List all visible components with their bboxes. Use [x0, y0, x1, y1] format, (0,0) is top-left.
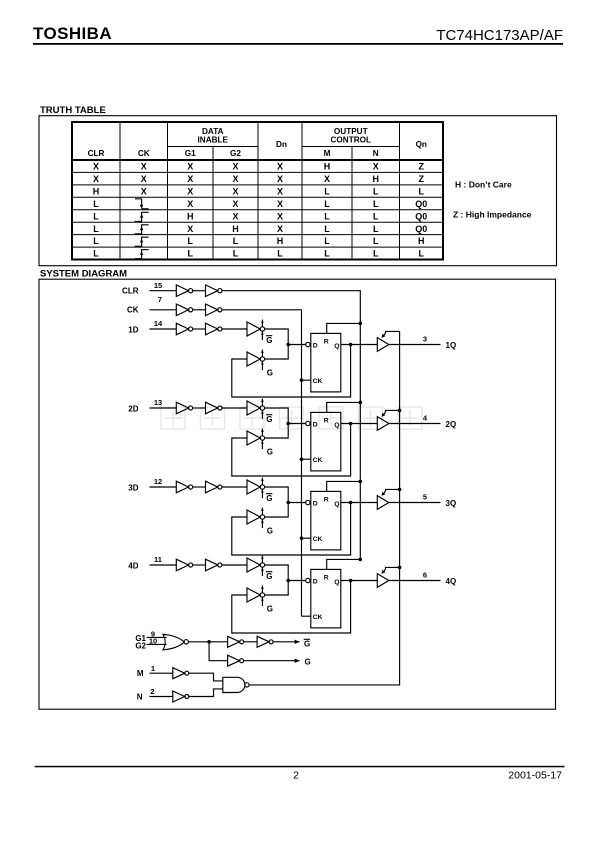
node D3: [286, 501, 290, 505]
svg-text:6: 6: [423, 571, 427, 580]
svg-text:CK: CK: [138, 149, 150, 158]
svg-text:L: L: [419, 249, 425, 259]
wire FF1 R to CLR rail: [327, 323, 361, 333]
wire 4D interstage: [193, 564, 206, 566]
svg-text:2D: 2D: [128, 405, 138, 414]
inverter 4D 1: [176, 559, 192, 571]
svg-text:L: L: [93, 249, 99, 259]
svg-text:N: N: [373, 149, 379, 158]
svg-text:X: X: [141, 187, 147, 197]
svg-text:X: X: [187, 162, 193, 172]
svg-text:Q: Q: [334, 501, 339, 508]
svg-text:CLR: CLR: [88, 149, 105, 158]
svg-text:CK: CK: [313, 614, 323, 621]
node Q4: [349, 579, 353, 583]
flip-flop FF2: [311, 412, 341, 471]
wire 3D gate to D node: [265, 487, 289, 501]
wire 1Q output: [389, 344, 441, 346]
node D2: [286, 422, 290, 426]
svg-text:L: L: [324, 224, 330, 234]
wire CLR rail: [222, 291, 360, 560]
svg-text:D: D: [313, 422, 318, 429]
svg-text:R: R: [324, 418, 329, 425]
inverter 3D 1: [176, 481, 192, 493]
svg-text:H: H: [277, 236, 284, 246]
wire Gbar output arrow: [273, 640, 300, 644]
svg-text:L: L: [373, 224, 379, 234]
system diagram box: [39, 279, 556, 709]
node CLR tap 4: [359, 558, 363, 562]
wire 1D input: [150, 328, 177, 330]
wire 4D gate to D node: [265, 565, 289, 579]
svg-text:L: L: [188, 249, 194, 259]
svg-text:L: L: [93, 236, 99, 246]
svg-text:G: G: [266, 572, 272, 581]
svg-text:Q: Q: [334, 422, 339, 429]
wire G output arrow: [244, 659, 300, 663]
wire 1D to gate: [222, 328, 247, 330]
svg-text:2Q: 2Q: [446, 420, 457, 429]
svg-text:Dn: Dn: [276, 140, 287, 149]
inverter CK 1: [176, 304, 192, 316]
svg-text:X: X: [373, 162, 379, 172]
wire 4D input: [150, 564, 177, 566]
svg-text:D: D: [313, 343, 318, 350]
svg-text:M: M: [137, 669, 144, 678]
svg-text:G1: G1: [185, 149, 196, 158]
svg-text:H: H: [187, 211, 194, 221]
transmission gate 3D Gbar: [247, 478, 273, 503]
svg-text:13: 13: [154, 398, 162, 407]
svg-text:X: X: [324, 174, 330, 184]
svg-text:TRUTH TABLE: TRUTH TABLE: [40, 105, 106, 116]
wire 1D gate to D node: [265, 329, 289, 343]
wire Q3 feedback loop: [232, 503, 351, 556]
transmission gate 1D Gbar: [247, 320, 273, 345]
svg-text:L: L: [233, 236, 239, 246]
wire CLR input: [150, 290, 177, 292]
truth table column lines: [120, 122, 400, 260]
wire D node to FF1: [288, 344, 305, 346]
node G split: [207, 640, 211, 644]
svg-text:INABLE: INABLE: [198, 136, 229, 145]
wire FF2 R to CLR rail: [327, 402, 361, 412]
svg-text:X: X: [187, 174, 193, 184]
CK falling edge symbol row 4: [135, 199, 149, 209]
svg-text:G: G: [267, 448, 273, 457]
node D4: [286, 579, 290, 583]
svg-text:X: X: [277, 199, 283, 209]
svg-text:G: G: [304, 640, 310, 649]
svg-text:Q0: Q0: [415, 211, 427, 221]
svg-text:M: M: [324, 149, 331, 158]
wire FF3 R to CLR rail: [327, 481, 361, 491]
FF1 D input bubble: [306, 342, 310, 346]
svg-text:L: L: [373, 199, 379, 209]
wire feedback gate 4 to D node: [265, 582, 289, 595]
svg-text:X: X: [187, 187, 193, 197]
node CLR tap 3: [359, 480, 363, 484]
svg-text:4Q: 4Q: [446, 577, 457, 586]
svg-text:L: L: [93, 199, 99, 209]
svg-text:1: 1: [151, 664, 155, 673]
truth table header separator: [72, 159, 443, 161]
wire FF4 Q output: [341, 580, 378, 582]
svg-text:X: X: [141, 162, 147, 172]
svg-text:L: L: [324, 211, 330, 221]
truth table section box: [39, 116, 557, 266]
svg-text:L: L: [373, 211, 379, 221]
svg-text:14: 14: [154, 319, 163, 328]
inverter CLR 2: [206, 285, 222, 297]
inverter CK 2: [206, 304, 222, 316]
wire D node to FF2: [288, 423, 305, 425]
inverter 4D 2: [206, 559, 222, 571]
svg-text:R: R: [324, 497, 329, 504]
svg-text:L: L: [188, 236, 194, 246]
transmission gate Q4 feedback G: [247, 586, 273, 614]
inverter Gbar 1: [228, 636, 244, 647]
wire FF1 CK tap: [302, 379, 311, 381]
FF3 D input bubble: [306, 500, 310, 504]
svg-text:D: D: [313, 501, 318, 508]
transmission gate 2D Gbar: [247, 399, 273, 424]
svg-text:L: L: [324, 236, 330, 246]
svg-text:15: 15: [154, 281, 162, 290]
svg-text:7: 7: [158, 295, 162, 304]
node D1: [286, 343, 290, 347]
transmission gate 4D Gbar: [247, 556, 273, 581]
svg-text:X: X: [277, 211, 283, 221]
svg-text:L: L: [277, 249, 283, 259]
wire Q2 feedback loop: [232, 424, 351, 477]
svg-text:X: X: [232, 199, 238, 209]
inverter 1D 1: [176, 323, 192, 335]
NAND gate M N: [223, 677, 249, 692]
wire G2 input: [147, 643, 167, 645]
watermark: [161, 407, 422, 429]
svg-text:N: N: [137, 693, 143, 702]
wire CK rail: [222, 310, 302, 616]
wire G branch: [209, 642, 228, 661]
node Q1: [349, 343, 353, 347]
svg-text:Q: Q: [334, 343, 339, 350]
wire FF3 Q output: [341, 502, 378, 504]
node OE tap 4: [398, 566, 402, 570]
svg-text:H: H: [418, 236, 425, 246]
wire 2D gate to D node: [265, 408, 289, 422]
svg-text:4D: 4D: [128, 562, 138, 571]
wire Q4 feedback loop: [232, 581, 351, 634]
tri-state output buffer 2Q: [377, 410, 399, 430]
inverter M: [173, 668, 189, 679]
wire 1D interstage: [193, 328, 206, 330]
svg-text:SYSTEM DIAGRAM: SYSTEM DIAGRAM: [40, 269, 127, 280]
svg-text:CK: CK: [313, 536, 323, 543]
wire FF4 CK tap: [302, 615, 311, 617]
truth table sub-header lines: [168, 146, 400, 148]
svg-text:L: L: [324, 249, 330, 259]
CK rising edge symbol row 8: [135, 250, 149, 259]
wire 3Q output: [389, 502, 441, 504]
wire 2D to gate: [222, 407, 247, 409]
svg-text:G: G: [266, 494, 272, 503]
wire feedback gate 2 to D node: [265, 425, 289, 438]
svg-text:CK: CK: [313, 378, 323, 385]
svg-text:L: L: [93, 224, 99, 234]
svg-text:H : Don’t Care: H : Don’t Care: [455, 180, 512, 190]
wire 3D interstage: [193, 486, 206, 488]
wire M to NAND: [189, 673, 223, 681]
node CLR tap 2: [359, 401, 363, 405]
svg-text:H: H: [324, 162, 331, 172]
wire 2D input: [150, 407, 177, 409]
FF4 D input bubble: [306, 578, 310, 582]
transmission gate Q3 feedback G: [247, 508, 273, 536]
svg-text:L: L: [233, 249, 239, 259]
svg-text:3Q: 3Q: [446, 499, 457, 508]
svg-text:G: G: [266, 336, 272, 345]
svg-text:X: X: [141, 174, 147, 184]
wire M input: [150, 672, 173, 674]
wire Gbar interstage: [244, 641, 258, 643]
svg-text:L: L: [324, 199, 330, 209]
svg-text:G: G: [267, 527, 273, 536]
wire feedback gate 1 to D node: [265, 346, 289, 359]
svg-text:1D: 1D: [128, 326, 138, 335]
svg-text:X: X: [277, 174, 283, 184]
wire N to NAND: [189, 689, 223, 697]
svg-text:G: G: [267, 605, 273, 614]
svg-text:Z : High Impedance: Z : High Impedance: [453, 210, 532, 220]
CK rising edge symbol row 5: [135, 212, 149, 221]
CK rising edge symbol row 6: [135, 225, 149, 234]
svg-text:X: X: [187, 199, 193, 209]
wire output enable rail: [249, 331, 400, 685]
svg-text:X: X: [232, 174, 238, 184]
tri-state output buffer 3Q: [377, 489, 399, 509]
svg-text:G: G: [305, 658, 311, 667]
svg-text:CLR: CLR: [122, 287, 139, 296]
tri-state output buffer 4Q: [377, 567, 399, 587]
svg-text:12: 12: [154, 477, 162, 486]
svg-text:X: X: [277, 162, 283, 172]
wire 3D input: [150, 486, 177, 488]
svg-text:11: 11: [154, 555, 162, 564]
truth table frame: [72, 122, 443, 260]
net Gbar label: [304, 639, 311, 648]
transmission gate Q1 feedback G: [247, 350, 273, 378]
svg-text:CK: CK: [313, 457, 323, 464]
wire CLR interstage: [193, 290, 206, 292]
wire FF4 R to CLR rail: [327, 559, 361, 569]
svg-text:X: X: [232, 187, 238, 197]
svg-text:H: H: [93, 187, 100, 197]
svg-text:CONTROL: CONTROL: [331, 136, 371, 145]
svg-text:Q: Q: [334, 579, 339, 586]
CK rising edge symbol row 7: [135, 237, 149, 246]
svg-text:Z: Z: [419, 174, 425, 184]
inverter N: [173, 691, 189, 702]
wire 4D to gate: [222, 564, 247, 566]
svg-text:2: 2: [293, 770, 299, 782]
svg-text:R: R: [324, 575, 329, 582]
inverter 2D 2: [206, 402, 222, 414]
svg-text:2001-05-17: 2001-05-17: [508, 770, 562, 782]
truth table header text: [88, 127, 427, 158]
svg-text:X: X: [277, 224, 283, 234]
svg-text:R: R: [324, 339, 329, 346]
svg-text:X: X: [232, 211, 238, 221]
node OE tap 2: [398, 409, 402, 413]
svg-text:Qn: Qn: [416, 140, 427, 149]
wire FF2 Q output: [341, 423, 378, 425]
wire feedback gate 3 to D node: [265, 504, 289, 517]
svg-text:L: L: [373, 236, 379, 246]
svg-text:D: D: [313, 579, 318, 586]
svg-text:1Q: 1Q: [446, 341, 457, 350]
svg-text:H: H: [232, 224, 239, 234]
inverter CLR 1: [176, 285, 192, 297]
svg-text:5: 5: [423, 493, 427, 502]
flip-flop FF3: [311, 491, 341, 550]
svg-text:Z: Z: [419, 162, 425, 172]
svg-text:4: 4: [423, 414, 428, 423]
wire 3D to gate: [222, 486, 247, 488]
svg-text:3D: 3D: [128, 484, 138, 493]
wire CK interstage: [193, 309, 206, 311]
svg-text:G2: G2: [135, 641, 146, 650]
wire N input: [150, 696, 173, 698]
node CK tap 3: [300, 536, 304, 540]
svg-text:L: L: [324, 187, 330, 197]
wire G1 input: [147, 636, 167, 638]
flip-flop FF4: [311, 569, 341, 628]
svg-text:Q0: Q0: [415, 199, 427, 209]
node CK tap 2: [300, 457, 304, 461]
wire FF2 CK tap: [302, 458, 311, 460]
inverter 1D 2: [206, 323, 222, 335]
wire 2Q output: [389, 423, 441, 425]
node OE tap 3: [398, 488, 402, 492]
svg-text:G: G: [266, 415, 272, 424]
flip-flop FF1: [311, 333, 341, 392]
NOR gate G1 G2: [163, 634, 188, 650]
svg-text:X: X: [187, 224, 193, 234]
svg-text:X: X: [93, 174, 99, 184]
transmission gate Q2 feedback G: [247, 429, 273, 457]
svg-text:L: L: [373, 187, 379, 197]
svg-text:G2: G2: [230, 149, 241, 158]
wire Q1 feedback loop: [232, 345, 351, 398]
tri-state output buffer 1Q: [377, 331, 399, 351]
svg-text:G: G: [267, 369, 273, 378]
footer rule: [35, 766, 565, 768]
FF2 D input bubble: [306, 421, 310, 425]
svg-text:2: 2: [150, 687, 154, 696]
wire FF3 CK tap: [302, 537, 311, 539]
svg-text:3: 3: [423, 335, 427, 344]
svg-text:TC74HC173AP/AF: TC74HC173AP/AF: [436, 27, 563, 44]
wire NOR output: [188, 641, 227, 643]
header rule: [33, 43, 563, 45]
svg-text:TOSHIBA: TOSHIBA: [33, 24, 112, 43]
node Q3: [349, 501, 353, 505]
svg-text:Q0: Q0: [415, 224, 427, 234]
svg-text:CK: CK: [127, 306, 139, 315]
wire CK input: [150, 309, 177, 311]
svg-text:L: L: [373, 249, 379, 259]
wire D node to FF4: [288, 580, 305, 582]
inverter G: [228, 655, 244, 666]
svg-text:X: X: [277, 187, 283, 197]
node CK tap 1: [300, 378, 304, 382]
node Q2: [349, 422, 353, 426]
inverter 3D 2: [206, 481, 222, 493]
truth table row lines: [72, 172, 443, 247]
node CLR tap 1: [359, 322, 363, 326]
svg-text:X: X: [232, 162, 238, 172]
wire FF1 Q output: [341, 344, 378, 346]
inverter 2D 1: [176, 402, 192, 414]
svg-text:H: H: [373, 174, 380, 184]
svg-text:L: L: [419, 187, 425, 197]
svg-text:L: L: [93, 211, 99, 221]
wire D node to FF3: [288, 502, 305, 504]
wire 4Q output: [389, 580, 441, 582]
inverter Gbar 2: [257, 636, 273, 647]
wire 2D interstage: [193, 407, 206, 409]
truth table body text: [93, 162, 428, 259]
svg-text:X: X: [93, 162, 99, 172]
